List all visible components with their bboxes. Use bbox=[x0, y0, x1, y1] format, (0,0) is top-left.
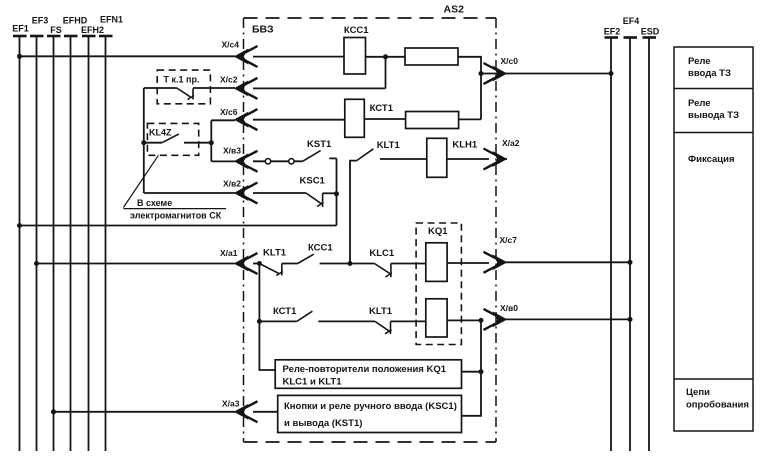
relay coil KCT1 bbox=[345, 99, 365, 137]
info box1 rele-povtoriteli bbox=[275, 360, 461, 389]
svg-text:КСТ1: КСТ1 bbox=[273, 306, 297, 317]
wire X/v0 to EF4 bbox=[505, 318, 630, 320]
wire X/c7 to EF4 bbox=[505, 261, 630, 263]
leader line to text bbox=[123, 155, 158, 207]
svg-text:вывода ТЗ: вывода ТЗ bbox=[688, 110, 739, 121]
node FS tap bbox=[51, 409, 56, 414]
node KCC1 out bbox=[383, 54, 388, 59]
node KSC1 out bbox=[334, 191, 339, 196]
connector X/c6 bbox=[235, 109, 258, 130]
svg-text:Х/с7: Х/с7 bbox=[500, 235, 518, 245]
svg-text:KLC1 и KLT1: KLC1 и KLT1 bbox=[283, 377, 343, 388]
node 481 X/v0 row bbox=[479, 318, 484, 323]
wire KQ1 coil1 to X/c7 bbox=[447, 262, 489, 264]
svg-text:ввода ТЗ: ввода ТЗ bbox=[688, 68, 731, 79]
svg-text:Х/а3: Х/а3 bbox=[222, 399, 240, 409]
svg-text:Кнопки и реле ручного ввода (: Кнопки и реле ручного ввода (KSC1) bbox=[284, 401, 457, 412]
resistor R1 bbox=[405, 48, 458, 65]
contact KCC1 (NO) bbox=[298, 254, 314, 263]
node EF4 join X/v0 bbox=[628, 317, 633, 322]
pushbutton circle 1 bbox=[265, 159, 270, 164]
svg-text:КСС1: КСС1 bbox=[344, 25, 369, 36]
bus EFH2 bbox=[88, 36, 90, 451]
svg-text:ESD: ESD bbox=[641, 27, 660, 37]
wire EF1 to X/c4 row bbox=[20, 55, 236, 57]
connector X/v2 bbox=[235, 183, 258, 204]
svg-text:Х/в3: Х/в3 bbox=[223, 146, 241, 156]
svg-text:Х/а1: Х/а1 bbox=[220, 248, 238, 258]
svg-text:Х/в0: Х/в0 bbox=[500, 303, 518, 313]
svg-text:Х/с4: Х/с4 bbox=[222, 40, 240, 50]
svg-text:KLC1: KLC1 bbox=[369, 248, 395, 259]
connector X/a2 bbox=[484, 149, 507, 170]
wire box2 to node 481 bbox=[462, 372, 482, 416]
contact KLT1 on X/a1 row (NC) bbox=[259, 264, 282, 276]
wire KSC1 out stub bbox=[323, 192, 337, 194]
terminal tick EFHD bbox=[64, 35, 78, 38]
dashed block AS2 outline bbox=[244, 18, 497, 442]
svg-text:КСТ1: КСТ1 bbox=[370, 103, 394, 114]
dashed box T k.1 pr. bbox=[157, 70, 210, 104]
terminal tick EF3 bbox=[30, 35, 44, 38]
node 481 box1 bbox=[479, 369, 484, 374]
leader underline bbox=[123, 208, 226, 210]
svg-text:FS: FS bbox=[50, 25, 62, 35]
svg-text:Реле: Реле bbox=[688, 98, 711, 109]
wire X/a1 row segment bbox=[253, 263, 426, 265]
node KL4Z right bbox=[209, 140, 214, 145]
svg-text:КСС1: КСС1 bbox=[308, 243, 333, 254]
svg-text:KLT1: KLT1 bbox=[369, 306, 393, 317]
contact KSC1 (NC) bbox=[306, 193, 324, 207]
node KCT1 row branch bbox=[257, 319, 262, 324]
wire KLT1 to KLH1 coil bbox=[380, 158, 427, 160]
connector X/v0 bbox=[484, 309, 507, 330]
svg-text:Реле-повторители положения KQ1: Реле-повторители положения KQ1 bbox=[283, 364, 447, 375]
wire EF3 to X/a1 bbox=[37, 263, 236, 265]
connector X/c4 bbox=[235, 46, 258, 67]
wire node at 385 down to X/c2 row bbox=[385, 57, 387, 89]
contact KLT1 upper (NO) bbox=[357, 149, 374, 161]
node EF4 join X/c7 bbox=[628, 260, 633, 265]
wire X/c6 row bbox=[211, 119, 481, 120]
terminal tick EF2 bbox=[605, 36, 619, 39]
connector X/c0 bbox=[484, 63, 507, 84]
connector X/v3 bbox=[235, 151, 258, 172]
wire KST1 corner bbox=[329, 157, 336, 159]
wire X/v2 row bbox=[144, 192, 306, 194]
bus ESD bbox=[648, 38, 650, 451]
relay coil KQ1 upper bbox=[426, 243, 447, 282]
node KL4Z left bbox=[141, 140, 146, 145]
contact KLC1 (NC) bbox=[375, 264, 392, 278]
wire vertical 481 lower bbox=[480, 320, 482, 371]
wire vertical 211 branch bbox=[210, 120, 212, 161]
svg-text:KL4Z: KL4Z bbox=[149, 128, 172, 138]
node EF2 join bbox=[609, 71, 614, 76]
node KLT1 branch bbox=[348, 261, 353, 266]
terminal tick ESD bbox=[643, 36, 657, 39]
svg-text:EFN1: EFN1 bbox=[100, 15, 123, 25]
svg-text:и вывода (KST1): и вывода (KST1) bbox=[284, 418, 362, 429]
contact KL4Z (NO) bbox=[162, 134, 179, 143]
dashed box KQ1 bbox=[416, 223, 461, 345]
svg-text:KLH1: KLH1 bbox=[452, 140, 478, 151]
bus EF3 bbox=[36, 36, 38, 451]
relay coil KLH1 bbox=[427, 138, 447, 177]
wire X/c4 to KCC1 coil bbox=[253, 56, 344, 58]
resistor R2 bbox=[406, 112, 459, 129]
svg-text:AS2: AS2 bbox=[444, 4, 465, 16]
node EF3 tap bbox=[34, 261, 39, 266]
svg-text:Х/с0: Х/с0 bbox=[501, 56, 519, 66]
svg-text:электромагнитов СК: электромагнитов СК bbox=[130, 211, 222, 221]
svg-text:Х/а2: Х/а2 bbox=[502, 138, 520, 148]
wire R1 to corner down to X/c0 node bbox=[458, 57, 481, 74]
connector X/a3 bbox=[235, 401, 258, 422]
wire KL4Z row bbox=[144, 142, 212, 144]
wire EF1 lower tap bbox=[20, 225, 337, 227]
legend box right bbox=[674, 47, 753, 431]
node EF1 top tap bbox=[17, 54, 22, 59]
wire X/c0 node to EF2 bbox=[481, 73, 611, 75]
bus FS bbox=[53, 36, 55, 451]
svg-text:EF2: EF2 bbox=[604, 27, 621, 37]
svg-text:KLT1: KLT1 bbox=[263, 248, 287, 259]
bus EF2 bbox=[610, 38, 612, 451]
wire FS to X/a3 bbox=[54, 411, 236, 413]
svg-text:Х/с2: Х/с2 bbox=[220, 75, 238, 85]
svg-text:опробования: опробования bbox=[686, 400, 749, 411]
contact KST1 (NO) bbox=[303, 151, 321, 162]
connector X/c7 bbox=[484, 252, 507, 273]
terminal tick EFH2 bbox=[82, 35, 96, 38]
contact KLT1 on X/v0 row (NC) bbox=[375, 321, 392, 334]
svg-text:EF3: EF3 bbox=[32, 16, 49, 26]
wire X/a3 to box2 bbox=[253, 411, 278, 413]
wire vertical 259.4 down bbox=[259, 264, 275, 371]
contact T (NC) bbox=[177, 88, 194, 100]
wire vertical 336.5 bbox=[336, 158, 338, 225]
terminal tick FS bbox=[47, 35, 61, 38]
svg-text:В схеме: В схеме bbox=[137, 198, 172, 208]
svg-text:БВЗ: БВЗ bbox=[252, 24, 274, 36]
relay coil KQ1 lower bbox=[426, 299, 447, 337]
svg-text:Х/с6: Х/с6 bbox=[220, 107, 238, 117]
svg-text:Т к.1 пр.: Т к.1 пр. bbox=[164, 75, 200, 85]
wire box1 to node 481 bbox=[462, 371, 482, 373]
terminal tick EFN1 bbox=[99, 35, 113, 38]
wire KLT1 branch up from X/a1 row bbox=[350, 161, 357, 264]
bus EFHD bbox=[70, 36, 72, 451]
svg-text:Цепи: Цепи bbox=[686, 387, 710, 398]
wire vertical 481 between rows bbox=[480, 74, 482, 120]
svg-text:EF4: EF4 bbox=[623, 16, 640, 26]
svg-text:EFHD: EFHD bbox=[63, 16, 88, 26]
terminal tick EF1 bbox=[13, 35, 27, 38]
svg-text:KST1: KST1 bbox=[307, 139, 332, 150]
node X/c0 left bbox=[479, 71, 484, 76]
svg-text:EFH2: EFH2 bbox=[81, 25, 104, 35]
pushbutton circle 2 bbox=[289, 159, 294, 164]
contact KCT1 (NO) bbox=[297, 311, 313, 321]
relay coil KCC1 bbox=[344, 38, 366, 75]
info box2 knopki bbox=[278, 395, 462, 432]
COMPONENTS bbox=[344, 38, 459, 338]
wire KQ1 coil2 to X/v0 bbox=[447, 319, 481, 321]
svg-text:EF1: EF1 bbox=[12, 24, 29, 34]
dashed box KL4Z bbox=[147, 123, 198, 155]
wire KCT1 row bbox=[259, 320, 425, 322]
terminal tick EF4 bbox=[624, 36, 638, 39]
bus EFN1 bbox=[105, 36, 107, 451]
node EF1 lower tap bbox=[17, 223, 22, 228]
svg-text:KSC1: KSC1 bbox=[300, 176, 326, 187]
node X/a1 branch bbox=[257, 261, 262, 266]
svg-text:KLT1: KLT1 bbox=[377, 140, 401, 151]
svg-text:Х/в2: Х/в2 bbox=[223, 179, 241, 189]
wire KLH1 coil to X/a2 bbox=[447, 158, 507, 160]
bus EF4 bbox=[629, 38, 631, 451]
wire KCC1 coil to resistor R1 bbox=[366, 56, 406, 58]
wire X/c2 row horizontal bbox=[144, 87, 386, 89]
svg-text:KQ1: KQ1 bbox=[428, 226, 448, 237]
svg-text:Фиксация: Фиксация bbox=[688, 154, 734, 165]
wire vertical 143.8 T-branch bbox=[143, 88, 145, 193]
bus EF1 bbox=[19, 36, 21, 451]
svg-text:Реле: Реле bbox=[688, 56, 711, 67]
wire X/v3 row bbox=[211, 160, 302, 162]
connector X/c2 bbox=[235, 78, 258, 99]
connector X/a1 bbox=[235, 253, 258, 274]
